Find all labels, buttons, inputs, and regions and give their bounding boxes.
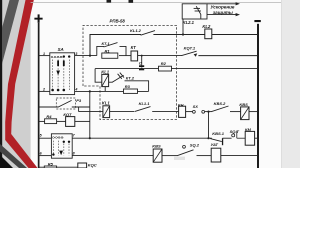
limit switch SQ.T	[232, 131, 246, 139]
svg-text:SA: SA	[58, 47, 64, 52]
wire KL2 to negative bus	[212, 34, 258, 36]
relay coil KL1 (series, current)	[103, 106, 110, 118]
top faint grey line (cut-off element)	[31, 1, 281, 4]
svg-text:KL1: KL1	[101, 69, 110, 74]
svg-text:KL2.1: KL2.1	[183, 20, 195, 25]
svg-text:R2: R2	[161, 61, 167, 66]
SA mid marks	[57, 61, 65, 67]
left panel black edge strip	[0, 0, 2, 168]
wire down to KL1 coil	[95, 69, 102, 83]
control switch SA box	[50, 53, 75, 95]
wire coil to KL1.1	[110, 111, 134, 113]
svg-text:R4: R4	[46, 114, 52, 119]
svg-text:8: 8	[73, 151, 75, 155]
svg-text:КМ: КМ	[245, 127, 251, 132]
wire KT coil to KQT.1	[138, 55, 182, 57]
wire acceleration box to row1	[182, 19, 184, 35]
SA lower bottom dot	[52, 153, 54, 155]
svg-text:KL1.1: KL1.1	[139, 101, 151, 106]
wire row1 right to KL2 coil	[183, 34, 205, 36]
SA lower arrow	[59, 151, 63, 156]
left panel bottom dark grey band	[0, 144, 27, 168]
negative bus (right vertical)	[257, 24, 259, 168]
wire row6 left	[79, 111, 103, 113]
svg-text:SQ.2: SQ.2	[190, 142, 200, 147]
node C tap	[141, 55, 143, 57]
wire R4 row from bus	[38, 120, 45, 122]
wire SA6 from bus	[38, 155, 51, 157]
relay coil KQC	[78, 163, 87, 168]
relay coil KBS (voltage)	[241, 107, 249, 120]
wire row3 (C to bus)	[95, 68, 258, 70]
wire row1 left (node to KL1.2)	[90, 35, 141, 56]
left decorative panel background	[0, 0, 31, 168]
SA lower dots	[63, 141, 71, 143]
svg-text:P3: P3	[76, 98, 82, 103]
wire row8 SA7 to KBS.1	[72, 137, 212, 139]
left panel red diagonal band	[5, 0, 37, 168]
SA closure dots top	[63, 55, 71, 57]
wire row9 SA8 to KBS coil	[72, 155, 153, 157]
relay coil КТ	[131, 51, 138, 61]
svg-text:РПВ-58: РПВ-58	[110, 19, 126, 24]
control switch SA lower box	[51, 134, 72, 158]
contact P3	[58, 100, 90, 107]
capacitor C stub	[141, 56, 143, 66]
white schematic background	[0, 0, 300, 168]
acceleration arrow top	[207, 2, 240, 5]
branch down from row6	[208, 112, 210, 139]
svg-text:KBS: KBS	[239, 102, 248, 107]
wire KQT to node column	[75, 120, 90, 122]
contact KL1.1	[135, 107, 180, 112]
svg-text:KL1.2: KL1.2	[130, 28, 142, 33]
wire KBS coil to SQ.2	[162, 155, 178, 157]
relay coil KQT	[66, 117, 75, 127]
resistor R1	[102, 53, 118, 58]
top edge black mark 2	[129, 0, 134, 3]
svg-text:KQT.1: KQT.1	[184, 46, 196, 51]
wire VAT to bus	[221, 155, 258, 157]
wire КН to SX	[186, 111, 193, 113]
svg-text:R1: R1	[105, 48, 111, 53]
relay coil KL1 (voltage)	[102, 74, 109, 86]
wire R1 to KT coil	[119, 55, 131, 57]
contact KBS.2	[212, 106, 241, 112]
svg-text:KBS: KBS	[152, 144, 161, 149]
svg-text:КН: КН	[178, 103, 183, 108]
svg-text:KBS.1: KBS.1	[212, 131, 225, 136]
minus terminal symbol	[254, 20, 260, 22]
contact KBS.1	[210, 138, 231, 145]
relay coil KL2	[205, 29, 212, 39]
svg-text:защиты: защиты	[213, 10, 233, 15]
contact KL1.2	[141, 31, 183, 36]
node row8 branch	[207, 137, 209, 139]
KL1 coil bottom stub	[104, 87, 106, 92]
wire SA1 from bus	[38, 55, 50, 57]
svg-text:2: 2	[42, 88, 45, 92]
contact SQ.2	[178, 145, 212, 155]
node row4	[89, 90, 91, 92]
node junction	[89, 55, 91, 57]
svg-text:R3: R3	[125, 84, 131, 89]
wire R5 row from bus	[38, 166, 44, 168]
contact KL2.1 (vertical, time-delay)	[194, 6, 201, 18]
svg-text:C: C	[139, 61, 142, 66]
svg-text:KL2: KL2	[202, 24, 211, 29]
connector SX circles	[193, 110, 205, 113]
wire КМ to bus	[255, 137, 258, 139]
top edge black mark 1	[107, 0, 112, 3]
right strip faint edge	[280, 0, 283, 168]
svg-text:KQC: KQC	[88, 162, 97, 167]
contact КТ.2	[109, 73, 149, 92]
contact KQT.1	[182, 51, 258, 57]
svg-text:O·O·B·B·: O·O·B·B·	[52, 136, 64, 140]
contact КТ.1 branch	[97, 43, 126, 56]
dashed box P3	[56, 98, 75, 109]
dashed enclosure РПВ-58	[83, 25, 177, 119]
left panel dark grey diagonal stripe	[2, 0, 19, 64]
stub P3 row to output row	[78, 107, 80, 112]
svg-text:O·O·B·B·: O·O·B·B·	[51, 55, 63, 59]
SA closure dots bottom	[51, 89, 65, 92]
resistor R2	[159, 66, 172, 71]
resistor R3	[124, 89, 138, 93]
svg-text:KL1: KL1	[102, 101, 111, 106]
positive bus (left vertical)	[38, 23, 40, 168]
wire SA3 to node	[75, 55, 97, 57]
wire SA2 from bus	[38, 90, 50, 92]
wire R4 to KQT	[57, 120, 66, 122]
node row6 branch	[207, 111, 209, 113]
node at acceleration branch	[182, 33, 184, 35]
wire row4 SA4 to R3 corner	[75, 90, 149, 92]
SA lower columns	[53, 141, 69, 156]
relay coil КН	[179, 106, 186, 117]
node SA7 junction	[89, 137, 91, 139]
acceleration arrow bottom	[207, 13, 240, 16]
resistor R4	[45, 119, 57, 124]
left panel bottom black corner	[0, 155, 13, 168]
wire R5 to KQC	[57, 166, 78, 168]
trip coil VAT	[211, 148, 221, 162]
contactor coil КМ	[245, 131, 254, 145]
node C bottom	[141, 68, 143, 70]
svg-text:КQТ: КQТ	[63, 112, 72, 117]
SA position columns (dashed)	[52, 60, 69, 91]
svg-text:УАТ: УАТ	[211, 142, 219, 147]
right grey margin strip	[281, 0, 300, 168]
svg-text:1: 1	[43, 52, 45, 56]
faint label remnant	[174, 157, 185, 160]
svg-text:SX: SX	[193, 104, 199, 109]
resistor R5	[44, 166, 56, 168]
wire KBS coil to bus	[249, 111, 258, 113]
plus terminal symbol	[34, 14, 42, 22]
acceleration block box	[182, 4, 207, 19]
svg-text:КТ.2: КТ.2	[126, 76, 135, 81]
wire SA5 from bus	[38, 137, 51, 139]
wire P3 row from bus	[38, 106, 59, 108]
capacitor C plates	[139, 65, 144, 70]
svg-text:SQ.T: SQ.T	[230, 129, 240, 134]
SA arrow mark	[56, 71, 60, 76]
svg-text:КТ.1: КТ.1	[102, 41, 111, 46]
vertical link bus (common node column)	[89, 91, 91, 138]
svg-text:KBS.2: KBS.2	[214, 101, 227, 106]
wire SX to KBS.2	[205, 111, 212, 113]
svg-text:КТ: КТ	[131, 45, 137, 50]
relay coil KBS (current)	[153, 149, 162, 162]
